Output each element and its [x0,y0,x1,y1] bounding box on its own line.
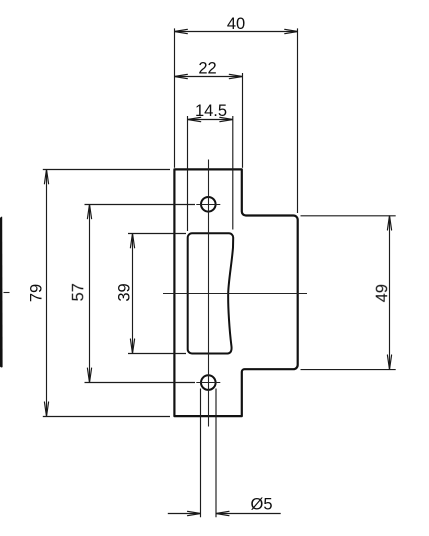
dim 57 arrow top [87,204,91,219]
svg-text:49: 49 [373,284,391,302]
dim 22 extension line right [242,73,244,168]
dim 14.5 extension line left [187,116,189,231]
dim 40 line [174,31,297,33]
side view centerline tick [4,292,10,294]
dim 40 extension line left [174,28,176,167]
dim 22 arrow left [174,74,187,78]
dim diameter-5 tangent extension right [215,389,217,518]
dim 14.5 extension line right [232,116,234,230]
dim 79 arrow top [44,169,48,184]
dim 40 arrow right [285,29,298,33]
dim 49 extension line bottom [301,369,396,371]
dim 79 extension line top [43,169,170,171]
dim 49 arrow bottom [387,355,391,370]
dim 39 extension line bottom [128,353,186,355]
horizontal centerline [163,293,307,295]
dim 57 extension line top [85,204,196,206]
top hole [201,197,216,212]
dim 39 line [132,233,134,353]
dim 49 line [389,216,391,370]
dim 14.5 line [188,119,233,121]
svg-text:14.5: 14.5 [195,102,227,120]
dim 79 line [46,169,48,416]
svg-text:40: 40 [227,15,245,33]
dim 57 extension line bottom [85,382,196,384]
dim diameter-5 tangent extension left [200,389,202,518]
svg-text:79: 79 [28,284,46,302]
dim 49 extension line top [301,215,396,217]
dim diameter-5 line left [168,513,201,515]
dim 40 extension line right [297,28,299,213]
dim 22 arrow right [229,74,242,78]
bottom hole [201,375,216,390]
dim 40 arrow left [174,29,187,33]
svg-text:Ø5: Ø5 [250,496,272,514]
svg-text:57: 57 [69,283,87,301]
latch cutout [188,233,234,353]
top hole crosshair [196,204,220,206]
dim 57 line [89,204,91,382]
dim 14.5 arrow right [220,117,233,121]
dim 79 extension line bottom [43,416,170,418]
plate outline [174,169,297,416]
vertical centerline [208,160,210,427]
svg-text:39: 39 [116,283,134,301]
dim diameter-5 arrow right [216,511,229,515]
side view sliver [0,217,3,368]
dim 14.5 arrow left [188,117,201,121]
dim diameter-5 arrow left [188,511,201,515]
dim 22 line [174,76,242,78]
dim 49 arrow top [387,216,391,231]
dim 39 arrow top [130,233,134,248]
dim 39 extension line top [128,233,186,235]
bottom hole crosshair [196,382,220,384]
dim diameter-5 line right [216,513,281,515]
svg-text:22: 22 [198,59,216,77]
dim 57 arrow bottom [87,368,91,383]
dim 79 arrow bottom [44,402,48,417]
dim 39 arrow bottom [130,339,134,354]
